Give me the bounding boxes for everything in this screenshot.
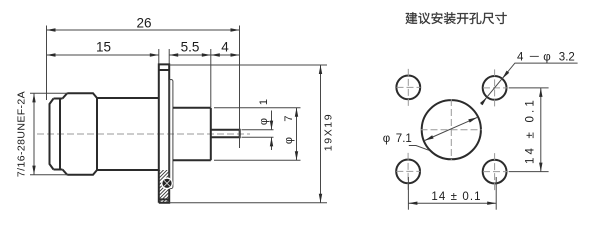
svg-text:26: 26	[136, 16, 151, 31]
o-ring cross-section	[161, 177, 173, 189]
dimension 19X19	[170, 64, 328, 66]
mounting hole top-right	[483, 76, 507, 100]
svg-text:14 ± 0.1: 14 ± 0.1	[525, 97, 537, 164]
svg-text:7/16-28UNEF-2A: 7/16-28UNEF-2A	[16, 91, 28, 177]
svg-text:15: 15	[96, 40, 111, 55]
extension line flange right	[168, 49, 170, 64]
front coupling section	[50, 99, 63, 170]
dimension 7/16-28UNEF-2A	[30, 92, 67, 94]
dimension 15	[47, 54, 159, 56]
mounting hole top-left	[396, 76, 420, 100]
dimension 5.5	[169, 54, 211, 56]
svg-text:14 ± 0.1: 14 ± 0.1	[431, 191, 481, 203]
extension line flange left	[158, 49, 160, 64]
extension line cylinder end	[210, 49, 212, 107]
central hole phi7.1	[422, 100, 481, 159]
mounting hole bottom-left	[396, 160, 420, 184]
dimension 14 +/- 0.1 horizontal	[407, 177, 409, 210]
svg-text:19X19: 19X19	[323, 113, 335, 151]
extension line left	[46, 26, 48, 101]
extension line pin tip	[239, 26, 241, 149]
threaded section 7/16-28UNEF	[67, 93, 97, 175]
svg-text:7: 7	[283, 115, 295, 121]
mounting hole bottom-right	[483, 160, 507, 184]
svg-text:4: 4	[221, 40, 229, 55]
centerline of connector axis	[37, 133, 250, 135]
contact pin phi1	[211, 130, 240, 137]
rear cylinder phi7	[173, 108, 211, 160]
main body section	[97, 98, 159, 170]
svg-text:1: 1	[258, 99, 270, 105]
svg-text:φ: φ	[258, 118, 270, 125]
gasket o-ring behind flange	[169, 80, 173, 189]
title 建议安装开孔尺寸	[406, 12, 507, 24]
square flange	[159, 64, 169, 202]
svg-text:φ7.1: φ7.1	[383, 133, 412, 145]
dimension phi7	[214, 107, 301, 109]
dimension 26	[47, 29, 240, 31]
svg-text:5.5: 5.5	[181, 40, 200, 55]
thread relief chamfer	[63, 93, 68, 175]
dimension 4	[211, 54, 240, 56]
svg-text:φ: φ	[283, 137, 295, 144]
dimension 14 +/- 0.1 vertical	[509, 87, 549, 89]
dimension phi1	[242, 129, 274, 131]
